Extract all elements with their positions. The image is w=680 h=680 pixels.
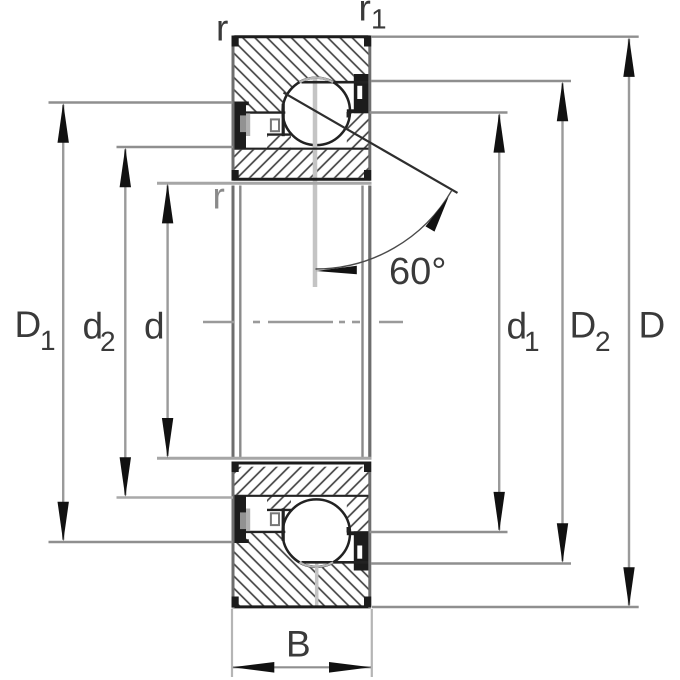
svg-text:2: 2 [100, 326, 116, 357]
svg-text:1: 1 [524, 326, 540, 357]
svg-text:r: r [213, 176, 225, 217]
svg-text:D: D [15, 304, 42, 345]
svg-text:d: d [144, 306, 165, 347]
svg-text:60°: 60° [389, 251, 446, 293]
svg-text:1: 1 [40, 325, 56, 356]
svg-text:D: D [639, 305, 666, 346]
svg-text:r: r [216, 8, 228, 49]
svg-text:2: 2 [595, 326, 611, 357]
svg-text:B: B [286, 624, 311, 665]
svg-text:D: D [570, 305, 597, 346]
svg-text:1: 1 [371, 4, 387, 35]
svg-text:r: r [359, 0, 371, 29]
